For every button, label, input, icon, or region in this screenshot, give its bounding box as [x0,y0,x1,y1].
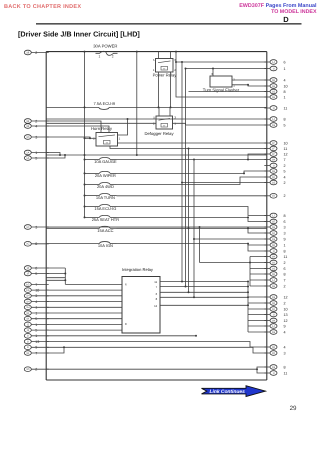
svg-text:1H: 1H [26,300,29,303]
svg-text:TO MODEL INDEX: TO MODEL INDEX [271,9,317,15]
svg-text:1H: 1H [272,85,275,88]
svg-text:1H: 1H [272,96,275,99]
svg-text:D: D [283,15,289,24]
svg-text:1E: 1E [26,125,29,128]
svg-text:8: 8 [284,365,286,369]
svg-text:1H: 1H [272,226,275,229]
svg-text:1: 1 [284,67,286,71]
svg-text:Link Continues: Link Continues [210,389,246,395]
svg-text:8: 8 [284,249,286,253]
svg-text:2: 2 [112,54,114,58]
svg-text:1H: 1H [26,306,29,309]
svg-text:12: 12 [284,152,288,156]
svg-text:10: 10 [284,141,288,145]
svg-text:3: 3 [284,231,286,235]
svg-text:10: 10 [284,84,288,88]
svg-text:6: 6 [125,283,127,287]
svg-text:1I: 1I [27,335,29,338]
svg-text:1G: 1G [272,331,275,334]
svg-text:1A: 1A [26,157,29,160]
svg-text:1E: 1E [26,120,29,123]
svg-text:1E: 1E [272,346,275,349]
svg-text:1G: 1G [272,90,275,93]
svg-text:1J: 1J [272,214,275,217]
svg-text:1I: 1I [27,340,29,343]
svg-text:7.5A ECU-B: 7.5A ECU-B [94,101,116,106]
svg-text:1F: 1F [272,142,275,145]
svg-text:4: 4 [284,175,286,179]
svg-text:1G: 1G [26,289,29,292]
svg-text:8: 8 [284,214,286,218]
svg-text:2: 2 [35,51,37,55]
svg-text:1: 1 [153,68,155,72]
svg-text:1H: 1H [26,295,29,298]
svg-text:1G: 1G [272,181,275,184]
svg-text:1K: 1K [26,352,29,355]
svg-text:Defogger Relay: Defogger Relay [144,131,174,136]
svg-text:2: 2 [284,164,286,168]
svg-text:1I: 1I [272,164,274,167]
svg-text:1: 1 [119,137,121,141]
svg-text:Integration Relay: Integration Relay [122,267,154,272]
svg-text:8: 8 [284,272,286,276]
svg-text:2: 2 [284,301,286,305]
svg-text:2: 2 [284,284,286,288]
svg-text:1K: 1K [26,312,29,315]
svg-text:1G: 1G [272,296,275,299]
svg-text:11: 11 [284,147,288,151]
svg-text:1K: 1K [272,308,275,311]
svg-text:1J: 1J [272,61,275,64]
svg-text:6: 6 [284,220,286,224]
svg-text:2: 2 [284,261,286,265]
svg-text:1H: 1H [272,158,275,161]
svg-text:29: 29 [290,405,297,412]
svg-text:1F: 1F [272,153,275,156]
svg-text:5: 5 [153,58,155,62]
svg-text:2: 2 [284,181,286,185]
svg-text:1K: 1K [272,176,275,179]
svg-text:1C: 1C [26,226,29,229]
svg-text:1H: 1H [272,170,275,173]
svg-text:10: 10 [284,307,288,311]
svg-text:1E: 1E [272,302,275,305]
svg-text:1: 1 [284,243,286,247]
svg-text:2: 2 [284,194,286,198]
svg-text:7: 7 [284,278,286,282]
svg-text:1I: 1I [272,372,274,375]
svg-text:1K: 1K [272,232,275,235]
svg-text:1J: 1J [272,279,275,282]
svg-text:1: 1 [284,95,286,99]
svg-text:4: 4 [284,78,286,82]
svg-text:3: 3 [35,294,37,298]
svg-text:11: 11 [154,280,157,284]
svg-text:1F: 1F [26,272,29,275]
svg-text:13: 13 [284,313,288,317]
svg-text:1A: 1A [26,151,29,154]
svg-text:1I: 1I [272,67,274,70]
svg-text:1I: 1I [27,346,29,349]
svg-text:1J: 1J [272,118,275,121]
svg-text:1G: 1G [272,366,275,369]
svg-text:1D: 1D [26,368,29,371]
svg-text:1E: 1E [272,79,275,82]
svg-text:8: 8 [284,117,286,121]
svg-text:7: 7 [156,285,158,289]
svg-text:9: 9 [284,237,286,241]
svg-text:1C: 1C [26,243,29,246]
svg-text:8: 8 [284,90,286,94]
svg-text:1G: 1G [272,267,275,270]
svg-text:12: 12 [284,295,288,299]
svg-text:1D: 1D [26,136,29,139]
svg-text:12: 12 [284,319,288,323]
svg-text:1G: 1G [26,283,29,286]
svg-text:1D: 1D [272,195,275,198]
svg-text:1I: 1I [272,107,274,110]
svg-text:6: 6 [156,292,158,296]
svg-text:1: 1 [35,306,37,310]
svg-text:BACK TO CHAPTER INDEX: BACK TO CHAPTER INDEX [4,4,81,10]
svg-text:1J: 1J [26,329,29,332]
svg-text:1F: 1F [26,267,29,270]
svg-text:1K: 1K [272,261,275,264]
svg-text:1F: 1F [272,147,275,150]
svg-text:11: 11 [284,371,288,375]
svg-text:3: 3 [284,225,286,229]
svg-text:8: 8 [156,297,158,301]
svg-text:1: 1 [99,54,101,58]
svg-text:8: 8 [125,322,127,326]
svg-text:1I: 1I [272,250,274,253]
svg-text:7: 7 [284,158,286,162]
svg-text:1K: 1K [26,318,29,321]
svg-text:1H: 1H [272,255,275,258]
svg-text:12: 12 [154,304,158,308]
svg-text:5: 5 [284,123,286,127]
svg-text:1G: 1G [272,124,275,127]
svg-text:1J: 1J [272,325,275,328]
svg-text:6: 6 [284,267,286,271]
svg-text:Horn Relay: Horn Relay [91,126,113,131]
svg-text:1H: 1H [272,319,275,322]
svg-text:1G: 1G [272,238,275,241]
svg-text:9: 9 [35,346,37,350]
svg-text:1I: 1I [272,313,274,316]
svg-text:4: 4 [284,345,286,349]
svg-text:EWD307F Pages From Manual: EWD307F Pages From Manual [239,3,317,9]
svg-text:3: 3 [284,351,286,355]
svg-text:11: 11 [284,255,288,259]
svg-text:30A POWER: 30A POWER [93,44,117,49]
svg-text:4: 4 [284,330,286,334]
svg-text:[Driver Side J/B Inner Circuit: [Driver Side J/B Inner Circuit] [LHD] [18,29,140,38]
svg-text:1D: 1D [272,352,275,355]
svg-text:5: 5 [284,169,286,173]
svg-text:9: 9 [284,324,286,328]
svg-text:1E: 1E [272,273,275,276]
svg-text:Power Relay: Power Relay [153,72,178,77]
svg-text:1: 1 [35,334,37,338]
svg-text:1H: 1H [272,285,275,288]
svg-text:1E: 1E [272,244,275,247]
svg-text:1E: 1E [272,220,275,223]
svg-text:11: 11 [284,106,288,110]
svg-text:1B: 1B [26,51,29,54]
svg-text:6: 6 [284,60,286,64]
svg-text:1J: 1J [26,323,29,326]
